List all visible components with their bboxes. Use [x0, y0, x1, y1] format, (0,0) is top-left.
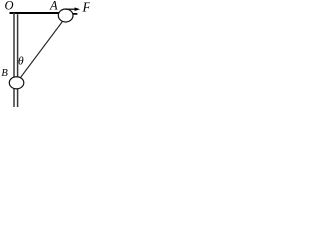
force F arrow [66, 8, 76, 10]
ceiling stub right of pulley [73, 13, 78, 15]
svg-text:O: O [5, 0, 14, 13]
svg-text:A: A [49, 0, 58, 12]
svg-text:F: F [82, 0, 91, 14]
pulley at A [58, 9, 73, 22]
pole left line [13, 13, 15, 107]
svg-text:θ: θ [18, 56, 24, 68]
ball B [9, 77, 24, 89]
svg-text:B: B [1, 68, 8, 79]
pole right line [17, 14, 19, 107]
background [0, 0, 90, 107]
string B to pulley (slant) [17, 16, 67, 83]
ceiling beam O-A [10, 12, 60, 14]
